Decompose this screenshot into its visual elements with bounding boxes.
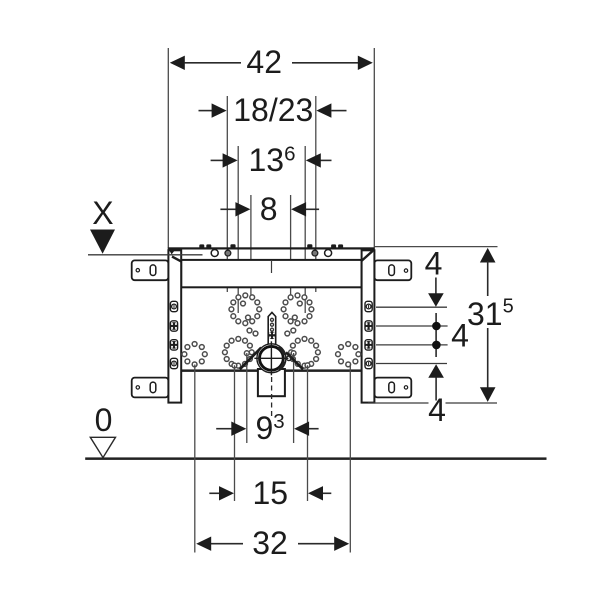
frame top plate [168,247,374,249]
frame right rail [362,250,375,402]
rod holder hole 3 [271,328,274,331]
svg-text:32: 32 [252,525,288,561]
leader line dim 32 right [349,365,351,553]
right tick line 1 [376,306,447,308]
mounting hole cluster side left [182,342,207,367]
bracket bottom-right [374,378,411,398]
bracket bottom-left [132,378,169,398]
wire X reference leader line [88,254,203,256]
threaded rod holder bar [268,312,276,344]
frame bottom chord [181,369,361,372]
svg-text:8: 8 [260,191,278,227]
top plate clip right C [307,244,312,248]
svg-text:X: X [92,195,113,231]
dimension 31.5 [368,402,429,404]
top plate screw left white [211,250,218,257]
dimension 8 [220,208,319,210]
dimension 4 third [428,364,444,378]
frame left rail [168,250,181,402]
right tick line 3 [376,344,448,346]
bracket top-left [132,260,169,280]
svg-text:18/23: 18/23 [233,92,313,128]
extension line 42 right [373,48,375,250]
top plate clip left C [230,244,235,248]
X level marker triangle [90,230,115,254]
right reference line top [375,246,498,248]
top plate screw left dark [225,250,231,256]
drain pipe outer circle [257,344,286,373]
frame miter joint right [361,251,373,262]
mounting hole cluster side right [336,342,361,367]
dimension 18/23 [199,110,347,112]
mounting hole cluster left [223,293,262,368]
dimension 4 second (dots) [435,313,437,357]
svg-text:42: 42 [246,44,282,80]
leader line dim 32 left [194,365,196,553]
fastener left rail 4 [170,358,177,368]
extension line 18/23 right [315,96,317,292]
fastener left rail 3 [170,340,178,350]
top plate clip left A [199,244,204,248]
brace left [240,348,261,370]
svg-text:4: 4 [425,246,443,282]
floor reference line 0 [85,457,546,460]
extension line 13.6 right [304,146,306,313]
0 level marker triangle [90,437,115,457]
top plate clip right A [331,244,336,248]
svg-text:4: 4 [428,392,446,428]
top plate clip left B [206,244,211,248]
fastener left rail 2 [170,321,178,331]
rod holder hole 2 [271,323,274,326]
drain crosshair horizontal [254,357,288,359]
right tick line 2 [376,325,448,327]
leader line dim 15 left [234,365,236,501]
top plate screw right white [325,250,332,257]
leader line dim 15 right [307,365,309,501]
leader line dim 9.3 left [246,353,248,443]
leader line dim 9.3 right [293,353,295,443]
extension line 18/23 left [226,96,228,292]
dimension 42 [185,62,358,64]
svg-text:15: 15 [253,475,289,511]
fastener right rail 3 [365,340,373,350]
frame miter joint left [172,257,181,262]
drain outlet box [258,369,285,396]
dimension 13.6 [211,159,332,161]
mounting hole cluster right [281,293,320,368]
fastener right rail 2 [365,321,373,331]
rod holder hole 1 [271,318,274,321]
fastener left rail 1 [170,301,177,311]
clamp boss arc upper [279,347,285,355]
drain center dashed line [271,377,273,417]
drain pipe clamp ring [260,346,284,370]
clamp boss arc lower [279,362,285,370]
extension line 42 left [167,48,169,250]
bracket top-right [374,260,411,280]
dimension 15 [209,492,331,494]
drain crosshair vertical [270,341,272,375]
right tick line 4 [376,363,447,365]
top plate screw right dark [312,250,318,256]
extension line 13.6 left [237,146,239,313]
dimension 9.3 [216,428,318,430]
frame top chord [181,260,361,287]
extension line 8 left [250,195,252,300]
fastener right rail 1 [365,301,372,311]
extension line 8 right [290,195,292,300]
frame center mark on top chord [271,260,273,273]
fastener right rail 4 [365,358,372,368]
rod holder gear nut [268,332,276,340]
dimension 32 [211,543,334,545]
X leader arrowhead at frame corner [168,248,176,255]
clamp screw nub [287,356,292,361]
svg-text:0: 0 [95,402,113,438]
brace right [286,352,303,369]
top plate clip right B [338,244,343,248]
